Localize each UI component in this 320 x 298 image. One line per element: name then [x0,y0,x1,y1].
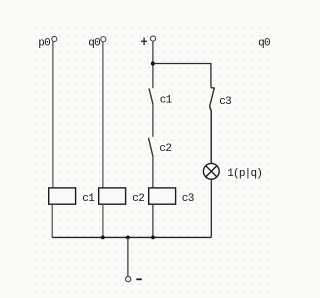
bus wire (bottom horizontal) [52,236,211,238]
junction dot bus/c3 [151,236,155,240]
terminal minus circle [126,276,131,281]
junction dot bus/c2 [101,236,105,240]
svg-text:c3: c3 [219,96,231,108]
wire lamp to bus [210,179,212,237]
coil c1 [49,188,76,204]
wire p0 vertical (terminal to coil c1) [52,42,54,188]
svg-text:c3: c3 [182,193,194,205]
svg-text:q0: q0 [258,37,270,49]
terminal + circle [150,36,155,41]
wire coil c2 to bus [102,204,104,237]
wire between contact c1 and contact c2 [152,105,154,137]
svg-text:c2: c2 [159,143,171,155]
coil c2 [99,188,126,204]
wire branch from junction to lamp column [153,64,211,88]
svg-text:1(p|q): 1(p|q) [227,168,262,180]
contact c3 (normally closed) [210,88,215,164]
svg-text:c1: c1 [160,95,173,107]
wire q0 vertical (terminal to coil c2) [102,42,104,188]
wire minus stem [127,237,129,276]
contact c1 (normally open) [149,89,153,105]
coil c3 [149,188,176,204]
svg-text:q0: q0 [88,37,100,49]
svg-text:p0: p0 [38,37,50,49]
terminal p0 circle [52,36,57,41]
wire + vertical down to contact c1 [152,41,154,88]
terminal minus symbol [136,278,142,280]
wire between contact c2 and coil c3 [152,157,154,188]
wire coil c3 to bus [152,204,154,237]
contact c2 (normally open) [149,138,154,157]
terminal q0 circle [101,37,106,42]
svg-text:c2: c2 [132,193,144,205]
junction dot bus/minus [126,236,130,240]
terminal + symbol [141,38,147,45]
wire coil c1 to bus [51,204,53,237]
lamp 1 symbol [203,163,219,179]
junction dot on + wire [151,61,155,65]
svg-text:c1: c1 [82,193,95,205]
